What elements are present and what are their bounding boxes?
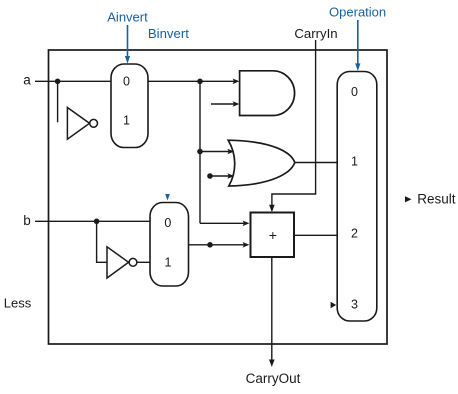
svg-text:Less: Less bbox=[4, 296, 32, 311]
Binvert control arrowhead bbox=[165, 194, 170, 201]
svg-text:CarryIn: CarryIn bbox=[294, 26, 337, 41]
Ainvert control arrow bbox=[125, 25, 130, 64]
wire a-mux output bbox=[148, 80, 236, 82]
node OR in2 junction bbox=[207, 173, 213, 179]
wire a input bbox=[35, 80, 111, 82]
svg-text:0: 0 bbox=[164, 216, 171, 230]
svg-text:CarryOut: CarryOut bbox=[246, 371, 301, 386]
mux Ainvert (2:1) bbox=[111, 64, 148, 148]
CarryIn arrowhead into adder bbox=[269, 205, 275, 212]
wire b input bbox=[35, 220, 150, 222]
svg-text:2: 2 bbox=[351, 227, 358, 241]
wire inverter b to mux bbox=[137, 261, 150, 263]
svg-text:Binvert: Binvert bbox=[148, 26, 189, 41]
AND gate bbox=[240, 71, 295, 116]
wire b to inverter bbox=[97, 221, 107, 262]
svg-text:1: 1 bbox=[123, 114, 130, 128]
wire CarryIn vertical bbox=[272, 40, 316, 209]
inverter (b) triangle bbox=[107, 247, 129, 278]
svg-text:1: 1 bbox=[165, 255, 172, 269]
outer ALU box bbox=[49, 50, 388, 344]
Operation control arrow bbox=[355, 20, 360, 71]
wire CarryOut bbox=[271, 257, 273, 363]
svg-text:Operation: Operation bbox=[329, 5, 386, 20]
inverter (a) triangle bbox=[67, 108, 89, 140]
wire to OR in1 bbox=[200, 151, 230, 153]
node a-mux output junction bbox=[197, 79, 203, 85]
svg-text:Result: Result bbox=[417, 192, 456, 207]
arrowhead into OR in1 bbox=[227, 149, 234, 155]
wire adder output bbox=[294, 234, 338, 236]
svg-text:0: 0 bbox=[351, 85, 358, 99]
node OR in1 junction bbox=[197, 149, 203, 155]
wire to adder in1 bbox=[200, 222, 245, 224]
wire AND in2 bbox=[211, 103, 236, 105]
OR gate bbox=[228, 140, 295, 186]
adder bbox=[251, 213, 295, 258]
inverter (b) bubble bbox=[129, 258, 137, 266]
wire a-mux output down bbox=[199, 81, 201, 223]
svg-text:b: b bbox=[23, 213, 31, 228]
wire a to inverter bbox=[57, 81, 59, 122]
arrowhead into OR in2 bbox=[227, 173, 234, 179]
node b-mux output junction bbox=[207, 242, 213, 248]
mux Operation (4:1) bbox=[337, 72, 377, 322]
inverter (a) bubble bbox=[90, 119, 98, 127]
arrowhead into AND in2 bbox=[233, 101, 240, 107]
svg-text:3: 3 bbox=[351, 298, 358, 312]
wire b-mux output bbox=[189, 244, 246, 246]
CarryOut arrowhead bbox=[269, 360, 275, 368]
node a junction bbox=[55, 79, 61, 85]
svg-text:+: + bbox=[269, 227, 277, 243]
wire OR output bbox=[295, 162, 337, 164]
arrowhead into AND in1 bbox=[233, 79, 240, 85]
arrowhead into adder in2 bbox=[243, 242, 250, 248]
node b junction bbox=[94, 219, 100, 225]
svg-text:0: 0 bbox=[123, 75, 130, 89]
arrowhead into mux pin 3 (Less) bbox=[331, 302, 337, 308]
Result output arrowhead bbox=[405, 196, 412, 202]
mux Binvert (2:1) bbox=[150, 203, 189, 287]
svg-text:1: 1 bbox=[351, 154, 358, 168]
wire OR in2 bbox=[210, 175, 230, 177]
arrowhead into adder in1 bbox=[243, 221, 250, 227]
svg-text:a: a bbox=[23, 72, 31, 87]
svg-text:Ainvert: Ainvert bbox=[107, 9, 148, 24]
